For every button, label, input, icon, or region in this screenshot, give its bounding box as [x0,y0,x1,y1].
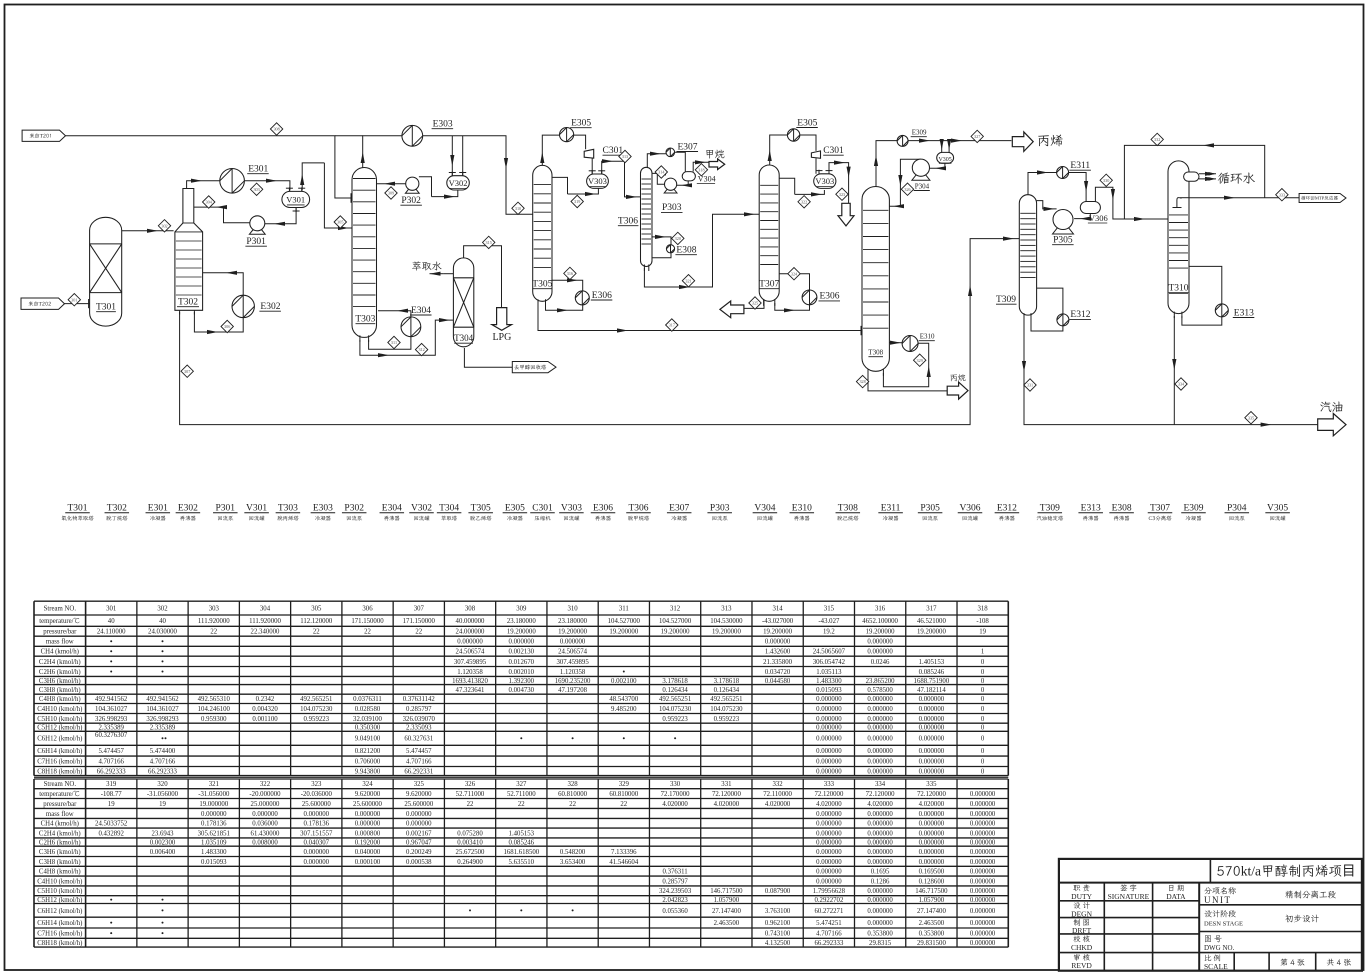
svg-text:19.200000: 19.200000 [763,629,792,636]
svg-text:0.006400: 0.006400 [150,849,176,856]
svg-text:0: 0 [981,768,985,775]
svg-text:324: 324 [791,271,798,276]
svg-text:再沸器: 再沸器 [180,514,197,522]
stream diamond 301 [68,294,80,306]
stream diamond 327 [971,130,983,142]
svg-text:0.000000: 0.000000 [867,736,893,743]
exchanger E305b [787,118,817,141]
drum V304 [682,172,715,184]
svg-text:C301: C301 [823,146,844,156]
svg-text:0.2922702: 0.2922702 [814,897,843,904]
flag to methanol recovery [512,362,556,373]
exchanger E307 [666,142,698,156]
svg-text:5.635510: 5.635510 [509,859,535,866]
svg-text:25.000000: 25.000000 [251,801,280,808]
stream diamond 334 [1175,378,1187,390]
svg-text:0.000000: 0.000000 [867,725,893,732]
svg-text:40: 40 [159,618,166,625]
svg-text:24.030000: 24.030000 [148,629,177,636]
svg-text:326.998293: 326.998293 [146,716,179,723]
svg-text:0.000000: 0.000000 [816,830,842,837]
svg-text:72.110000: 72.110000 [763,791,792,798]
svg-text:P305: P305 [1053,236,1073,246]
svg-text:回流罐: 回流罐 [962,514,979,522]
svg-text:4.020000: 4.020000 [919,801,945,808]
svg-text:0.085246: 0.085246 [919,669,945,676]
svg-text:5.474251: 5.474251 [816,920,842,927]
svg-text:60.3276307: 60.3276307 [95,732,128,739]
svg-text:0.000000: 0.000000 [304,811,330,818]
svg-text:1690.235200: 1690.235200 [555,678,591,685]
svg-text:C2H6 (kmol/h): C2H6 (kmol/h) [39,839,81,846]
svg-text:1.035109: 1.035109 [201,839,227,846]
svg-text:-108: -108 [976,618,989,625]
svg-text:309: 309 [388,191,394,196]
svg-text:P302: P302 [344,504,364,514]
equipment label E311 [878,504,903,523]
svg-text:21.335800: 21.335800 [763,659,792,666]
title block project name [1216,862,1355,880]
svg-text:325: 325 [752,301,758,306]
svg-text:104.530000: 104.530000 [710,618,743,625]
svg-text:T301: T301 [96,303,116,313]
svg-text:0.959223: 0.959223 [714,716,740,723]
svg-text:0.350300: 0.350300 [355,725,381,732]
svg-text:1.483300: 1.483300 [816,678,842,685]
svg-text:V306: V306 [1089,213,1108,223]
wire V303a vapor to T306 [602,161,641,199]
svg-text:2.463500: 2.463500 [919,920,945,927]
svg-text:19: 19 [159,801,166,808]
title block unit cell [1204,887,1337,905]
wire V301 vapor to T303 [300,163,324,191]
svg-text:再沸器: 再沸器 [1114,514,1131,522]
equipment label V301 [244,504,269,523]
svg-text:0.432892: 0.432892 [98,830,124,837]
svg-text:0.548200: 0.548200 [560,849,586,856]
svg-text:326: 326 [904,187,910,192]
svg-text:0.821200: 0.821200 [355,748,381,755]
wire V301 to P301 reflux [265,208,296,226]
wire T308 bottoms to propane product [868,373,947,391]
svg-text:mass flow: mass flow [46,639,74,646]
svg-text:0.000000: 0.000000 [970,849,996,856]
svg-text:脱丁烷塔: 脱丁烷塔 [106,514,128,522]
stream diamond 306 [221,320,233,332]
svg-text:23.180000: 23.180000 [558,618,587,625]
svg-text:0.000000: 0.000000 [201,811,227,818]
svg-text:0.000000: 0.000000 [919,859,945,866]
wire V305 to P304 suction [930,163,946,170]
equipment label T307 [1148,504,1173,523]
svg-text:T306: T306 [628,504,648,514]
label propylene [1037,132,1063,149]
stream diamond 328 [856,375,868,387]
wire V304 to P303 suction [677,181,692,188]
svg-text:0.000000: 0.000000 [919,768,945,775]
svg-text:P304: P304 [915,182,930,190]
svg-text:T305: T305 [532,280,552,290]
svg-text:307.459895: 307.459895 [556,659,589,666]
svg-text:E305: E305 [797,118,817,128]
svg-text:24.000000: 24.000000 [456,629,485,636]
svg-text:492.941562: 492.941562 [95,696,128,703]
svg-text:0: 0 [981,748,985,755]
svg-text:0.000000: 0.000000 [919,736,945,743]
svg-text:0.000000: 0.000000 [919,725,945,732]
svg-text:pressure/bar: pressure/bar [43,801,77,808]
svg-text:311: 311 [391,340,397,345]
svg-text:C7H16 (kmol/h): C7H16 (kmol/h) [37,931,82,938]
svg-text:P303: P303 [710,504,730,514]
svg-text:0.1286: 0.1286 [871,878,890,885]
svg-text:0.000000: 0.000000 [970,859,996,866]
compressor C301b [811,151,820,158]
svg-text:104.361027: 104.361027 [95,706,128,713]
svg-text:0: 0 [981,669,985,676]
svg-text:0.000000: 0.000000 [970,940,996,947]
svg-text:22: 22 [415,629,422,636]
svg-text:0.000000: 0.000000 [457,639,483,646]
svg-text:0.002010: 0.002010 [509,669,535,676]
svg-text:0.0246: 0.0246 [871,659,890,666]
svg-text:0.000000: 0.000000 [560,639,586,646]
svg-text:1693.413820: 1693.413820 [452,678,488,685]
svg-text:9.620000: 9.620000 [355,791,381,798]
wire T303 bottoms to T304 [360,318,454,355]
svg-text:22: 22 [569,801,576,808]
wire T308 overhead to E309 V305 [874,141,897,190]
svg-text:0.285797: 0.285797 [406,706,432,713]
svg-text:0.000000: 0.000000 [867,920,893,927]
svg-text:0.015093: 0.015093 [816,687,842,694]
svg-text:0.578500: 0.578500 [867,687,893,694]
svg-text:C8H18 (kmol/h): C8H18 (kmol/h) [37,940,82,947]
svg-text:19.2: 19.2 [823,629,835,636]
svg-text:C6H14 (kmol/h): C6H14 (kmol/h) [37,920,82,927]
svg-text:Stream NO.: Stream NO. [44,781,77,788]
svg-text:temperature/℃: temperature/℃ [39,617,80,625]
svg-text:C3H8 (kmol/h): C3H8 (kmol/h) [39,859,81,866]
svg-text:318: 318 [977,606,988,613]
stream diamond 323 [836,188,848,200]
svg-text:再沸器: 再沸器 [595,514,612,522]
svg-text:C4H8 (kmol/h): C4H8 (kmol/h) [39,696,81,703]
equipment label E313 [1078,504,1103,523]
svg-text:0.000000: 0.000000 [765,639,791,646]
svg-text:0.000000: 0.000000 [867,639,893,646]
svg-text:E303: E303 [433,120,453,130]
svg-text:来自T202: 来自T202 [28,301,51,308]
svg-text:0.000000: 0.000000 [867,830,893,837]
svg-text:29.831500: 29.831500 [917,940,946,947]
svg-text:312: 312 [418,347,424,352]
equipment label P305 [918,504,943,523]
svg-text:C5H12 (kmol/h): C5H12 (kmol/h) [37,897,82,904]
svg-text:40.000000: 40.000000 [456,618,485,625]
svg-text:19.200000: 19.200000 [661,629,690,636]
svg-text:0.000000: 0.000000 [867,649,893,656]
svg-text:312: 312 [670,606,681,613]
svg-text:0.008000: 0.008000 [252,839,278,846]
svg-text:pressure/bar: pressure/bar [43,629,77,636]
svg-text:0.000000: 0.000000 [970,791,996,798]
wire V303b reflux to T307 [795,190,825,194]
svg-text:0.000000: 0.000000 [867,849,893,856]
svg-text:0.967047: 0.967047 [406,839,432,846]
svg-text:1.405153: 1.405153 [509,830,535,837]
wire E307 to V304 [675,152,686,171]
svg-text:0: 0 [981,696,985,703]
svg-text:V303: V303 [815,176,834,186]
equipment label E308 [1109,504,1134,523]
svg-text:回流罐: 回流罐 [757,514,774,522]
stream diamond 332 [1151,133,1163,145]
svg-text:0.000000: 0.000000 [970,920,996,927]
svg-text:0.000000: 0.000000 [816,736,842,743]
svg-text:303: 303 [209,606,220,613]
svg-text:301: 301 [71,297,77,302]
svg-text:E308: E308 [1112,504,1132,514]
svg-text:72.120000: 72.120000 [917,791,946,798]
svg-text:0.000000: 0.000000 [816,706,842,713]
svg-text:330: 330 [1103,178,1109,183]
svg-text:22.340000: 22.340000 [251,629,280,636]
svg-text:0.000000: 0.000000 [867,759,893,766]
equipment label E301 [146,504,171,523]
svg-text:0.000000: 0.000000 [970,888,996,895]
svg-text:回流泵: 回流泵 [346,514,363,522]
svg-text:47.197208: 47.197208 [558,687,587,694]
svg-text:脱乙烯塔: 脱乙烯塔 [470,514,492,522]
svg-text:306: 306 [224,324,230,329]
svg-text:314: 314 [772,606,783,613]
svg-text:回流罐: 回流罐 [563,514,580,522]
svg-text:0.000000: 0.000000 [355,821,381,828]
svg-text:丙烷: 丙烷 [950,373,966,383]
svg-text:0.192000: 0.192000 [355,839,381,846]
svg-text:0.002167: 0.002167 [406,830,432,837]
svg-text:301: 301 [106,606,116,613]
svg-text:P303: P303 [662,203,682,213]
svg-text:308: 308 [465,606,476,613]
svg-text:T308: T308 [868,349,883,357]
stream diamond 312 [415,343,427,355]
svg-text:104.527000: 104.527000 [608,618,641,625]
label T306 [618,217,639,227]
svg-text:V305: V305 [1267,504,1288,514]
stream diamond 304 [203,196,215,208]
svg-text:0.000000: 0.000000 [919,748,945,755]
wire P303 to T306 reflux [652,171,666,184]
svg-text:-20.036000: -20.036000 [301,791,333,798]
svg-text:0.000000: 0.000000 [252,811,278,818]
svg-text:0.000000: 0.000000 [816,716,842,723]
svg-text:326: 326 [465,781,476,788]
svg-text:0.000000: 0.000000 [919,759,945,766]
svg-text:9.485200: 9.485200 [611,706,637,713]
svg-text:E301: E301 [148,504,168,514]
svg-text:306.054742: 306.054742 [813,659,846,666]
svg-text:1.392300: 1.392300 [509,678,535,685]
stream diamond 313 [619,150,631,162]
wire T303 overhead through E303 to T305 [335,135,363,137]
drum V303a [587,170,609,188]
svg-text:570kt/a甲醇制丙烯项目: 570kt/a甲醇制丙烯项目 [1216,862,1355,880]
svg-text:0: 0 [981,706,985,713]
svg-text:2.463500: 2.463500 [714,920,740,927]
svg-text:0.000000: 0.000000 [867,706,893,713]
svg-text:0.028580: 0.028580 [355,706,381,713]
wire V306 vapor to T310 feed [1095,187,1168,219]
svg-text:0.959223: 0.959223 [662,716,688,723]
svg-text:精制分离工段: 精制分离工段 [1285,890,1337,901]
svg-text:323: 323 [311,781,322,788]
svg-text:4.707166: 4.707166 [150,759,176,766]
svg-text:REVD: REVD [1071,961,1092,970]
svg-text:66.292333: 66.292333 [814,940,843,947]
equipment label T305 [468,504,493,523]
svg-text:0.959223: 0.959223 [304,716,330,723]
svg-text:0.004320: 0.004320 [252,706,278,713]
svg-text:冷凝器: 冷凝器 [883,514,900,522]
svg-text:0.000000: 0.000000 [355,811,381,818]
svg-text:0.000000: 0.000000 [919,696,945,703]
svg-text:V304: V304 [754,504,775,514]
svg-text:E306: E306 [820,292,840,302]
svg-text:0.002130: 0.002130 [509,649,535,656]
stream diamond 319 [571,195,583,207]
svg-text:E309: E309 [1183,504,1203,514]
svg-text:甲烷: 甲烷 [705,148,725,161]
svg-text:回流泵: 回流泵 [217,514,234,522]
svg-text:2.335093: 2.335093 [406,725,432,732]
svg-text:CH4 (kmol/h): CH4 (kmol/h) [41,821,79,828]
stream diamond 333 [1276,189,1288,201]
title block frame [1059,859,1362,971]
svg-text:P305: P305 [920,504,940,514]
svg-text:335: 335 [1248,415,1254,420]
svg-text:C4H10 (kmol/h): C4H10 (kmol/h) [37,878,82,885]
svg-text:1688.751900: 1688.751900 [914,678,950,685]
column T305 [532,165,552,305]
svg-text:冷凝器: 冷凝器 [1185,514,1202,522]
svg-text:22: 22 [518,801,525,808]
svg-text:C5H10 (kmol/h): C5H10 (kmol/h) [37,716,82,723]
wire P305 discharge to T309 reflux [1037,201,1057,209]
svg-text:V306: V306 [959,504,980,514]
equipment label E310 [790,504,815,523]
svg-text:315: 315 [486,240,492,245]
svg-text:0.000000: 0.000000 [867,859,893,866]
svg-text:22: 22 [364,629,371,636]
svg-text:310: 310 [567,606,578,613]
svg-text:307: 307 [414,606,425,613]
svg-text:E313: E313 [1234,308,1254,318]
svg-text:492.565251: 492.565251 [300,696,332,703]
stream diamond 302 [158,220,170,232]
wire T309 overhead to E311 [1028,170,1057,197]
svg-text:4.707166: 4.707166 [98,759,124,766]
svg-text:0.000538: 0.000538 [406,859,432,866]
stream diamond 320 [672,232,684,244]
svg-text:331: 331 [721,781,731,788]
equipment label T303 [276,504,301,523]
exchanger E313 [1215,304,1254,318]
svg-text:E306: E306 [593,504,613,514]
svg-text:307.459895: 307.459895 [454,659,487,666]
svg-text:E311: E311 [1070,161,1090,171]
svg-text:3.178618: 3.178618 [662,678,688,685]
svg-text:DATA: DATA [1166,892,1186,901]
exchanger E312 [1057,310,1091,326]
block arrow gasoline [1318,414,1346,436]
equipment label E306 [591,504,616,523]
pump P303 [661,178,683,213]
svg-text:T301: T301 [67,504,87,514]
svg-text:E313: E313 [1081,504,1101,514]
svg-text:104.361027: 104.361027 [146,706,179,713]
svg-text:310: 310 [515,206,521,211]
svg-text:循环回MTP反应器: 循环回MTP反应器 [1301,196,1338,202]
svg-text:0.000000: 0.000000 [509,639,535,646]
svg-text:V301: V301 [246,504,267,514]
wire V304 methane product [693,160,709,171]
svg-text:0: 0 [981,716,985,723]
svg-text:2.335389: 2.335389 [98,725,124,732]
wire P302 to T303 reflux [377,182,406,186]
svg-text:E302: E302 [260,302,280,312]
svg-text:0.000000: 0.000000 [919,811,945,818]
svg-text:E307: E307 [669,504,689,514]
block arrow propylene [1012,132,1033,152]
svg-text:回流罐: 回流罐 [413,514,430,522]
svg-text:5.474457: 5.474457 [406,748,432,755]
wire V306 to P305 suction [1074,214,1091,221]
svg-text:22: 22 [210,629,217,636]
svg-text:C6H14 (kmol/h): C6H14 (kmol/h) [37,748,82,755]
wire T310 reboiler loop E313 [1189,266,1222,304]
svg-text:328: 328 [567,781,578,788]
svg-text:冷凝器: 冷凝器 [150,514,167,522]
drum V301 [282,187,310,207]
svg-text:设计阶段: 设计阶段 [1204,910,1236,920]
equipment label P303 [707,504,732,523]
svg-text:3.653400: 3.653400 [560,859,586,866]
label circulating water [1218,170,1256,187]
svg-text:0.000000: 0.000000 [816,811,842,818]
svg-text:-108.77: -108.77 [101,791,123,798]
svg-text:再沸器: 再沸器 [999,514,1016,522]
equipment label P304 [1225,504,1250,523]
svg-text:330: 330 [670,781,681,788]
wire E301 to V301 [244,179,290,191]
label extraction water [412,260,442,273]
svg-text:DESN STAGE: DESN STAGE [1204,921,1243,928]
svg-text:temperature/℃: temperature/℃ [39,790,80,798]
svg-text:C2H6 (kmol/h): C2H6 (kmol/h) [39,669,81,676]
svg-text:305.621851: 305.621851 [198,830,230,837]
svg-text:0: 0 [981,678,985,685]
svg-text:72.120000: 72.120000 [712,791,741,798]
label T309 [996,295,1017,305]
svg-text:317: 317 [669,323,675,328]
svg-text:25.600000: 25.600000 [302,801,331,808]
svg-text:0.000000: 0.000000 [919,839,945,846]
svg-text:C5H10 (kmol/h): C5H10 (kmol/h) [37,888,82,895]
svg-text:T303: T303 [355,315,375,325]
svg-text:C3H6 (kmol/h): C3H6 (kmol/h) [39,678,81,685]
